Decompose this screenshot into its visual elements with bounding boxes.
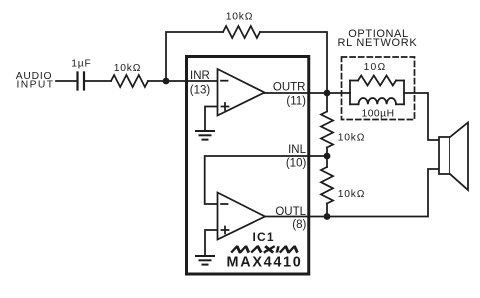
- svg-text:10kΩ: 10kΩ: [338, 189, 366, 200]
- svg-text:INPUT: INPUT: [17, 80, 55, 91]
- svg-text:10kΩ: 10kΩ: [114, 63, 142, 74]
- svg-text:RL NETWORK: RL NETWORK: [338, 37, 418, 49]
- svg-text:(10): (10): [286, 158, 307, 170]
- svg-text:(8): (8): [292, 219, 306, 231]
- svg-text:(11): (11): [286, 96, 306, 108]
- svg-text:10Ω: 10Ω: [364, 62, 387, 73]
- svg-text:(13): (13): [190, 85, 211, 97]
- svg-text:IC1: IC1: [252, 230, 274, 244]
- svg-text:INL: INL: [288, 144, 307, 156]
- svg-text:OUTL: OUTL: [275, 206, 306, 218]
- svg-text:10kΩ: 10kΩ: [338, 133, 366, 144]
- svg-text:OUTR: OUTR: [273, 82, 306, 94]
- svg-text:INR: INR: [190, 70, 210, 82]
- svg-text:10kΩ: 10kΩ: [226, 12, 254, 23]
- svg-text:1µF: 1µF: [71, 59, 91, 70]
- svg-text:100µH: 100µH: [361, 109, 394, 120]
- svg-text:MAX4410: MAX4410: [227, 255, 303, 271]
